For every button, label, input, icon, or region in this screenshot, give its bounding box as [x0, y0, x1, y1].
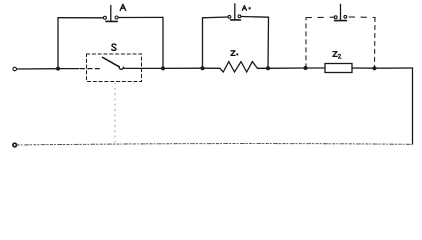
label Z2	[333, 52, 337, 57]
wire	[203, 67, 221, 69]
loop1 right vertical wire	[162, 17, 164, 68]
label Z1	[231, 51, 235, 56]
wire	[123, 67, 163, 69]
pushbutton A right contact	[115, 16, 118, 19]
switch S dashed enclosure	[87, 54, 142, 82]
label A1 subscript dot	[249, 7, 251, 9]
pushbutton A1 left contact	[228, 15, 231, 18]
loop3 top dashed wire right	[349, 16, 375, 18]
pushbutton 3 right contact	[344, 15, 347, 18]
wire	[352, 67, 375, 69]
node junction loop2 left	[201, 66, 205, 70]
loop2 top wire right	[241, 16, 269, 19]
pushbutton A1 right contact	[238, 15, 241, 18]
wire	[375, 67, 413, 69]
node junction loop3 left	[304, 66, 308, 70]
bottom return wire	[17, 144, 413, 145]
pushbutton 3 left contact	[334, 16, 337, 19]
switch S blade	[103, 57, 120, 67]
label Z2 subscript	[338, 54, 341, 58]
pushbutton 3 bridge bar	[335, 20, 347, 22]
wire	[306, 67, 326, 69]
loop1 top wire right	[118, 16, 163, 18]
node junction loop3 right	[373, 66, 377, 70]
loop2 right vertical wire	[267, 17, 270, 68]
label A	[120, 4, 126, 10]
node junction loop1 left	[56, 67, 60, 71]
wire	[17, 68, 58, 70]
wire right vertical	[412, 68, 414, 144]
terminal input bottom	[13, 143, 17, 147]
pushbutton A bridge bar	[106, 20, 117, 22]
pushbutton A stem	[110, 6, 112, 22]
loop3 left vertical dashed wire	[305, 18, 307, 68]
terminal input top	[13, 67, 17, 71]
loop2 left vertical wire	[202, 18, 204, 68]
wire	[258, 67, 269, 69]
switch S hook contact	[119, 66, 123, 69]
pushbutton 3 stem	[340, 4, 342, 20]
loop1 top wire left	[58, 17, 103, 19]
pushbutton A1 stem	[234, 4, 236, 20]
loop3 right vertical dashed wire	[374, 17, 377, 68]
loop3 top dashed wire left	[306, 16, 334, 18]
wire	[268, 67, 306, 69]
label A1	[242, 6, 246, 11]
wire	[58, 68, 79, 70]
node junction loop2 right	[266, 66, 270, 70]
label S	[112, 44, 116, 50]
resistor Z2 box	[325, 64, 352, 73]
pushbutton A1 bridge bar	[231, 19, 241, 21]
resistor Z1 zigzag	[220, 62, 258, 72]
wire dashed into switch box	[81, 68, 103, 70]
dotted link from S down to bottom wire	[114, 83, 116, 147]
wire	[163, 67, 203, 69]
loop1 left vertical wire	[57, 18, 59, 69]
pushbutton A left contact	[103, 16, 106, 19]
loop2 top wire left	[203, 16, 229, 19]
label Z1 subscript dot	[236, 53, 238, 55]
node junction loop1 right	[161, 66, 165, 70]
